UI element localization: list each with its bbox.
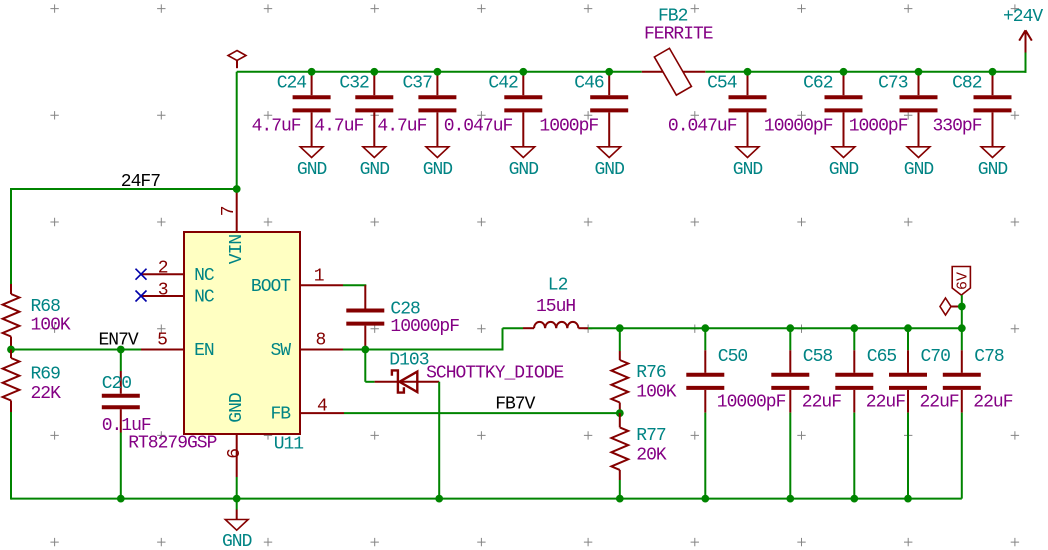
svg-text:22K: 22K	[31, 384, 62, 404]
junction node FB divider	[616, 409, 624, 417]
svg-text:C82: C82	[952, 74, 982, 94]
svg-text:C50: C50	[718, 347, 748, 367]
svg-text:22uF: 22uF	[802, 393, 841, 413]
pin 1 BOOT	[251, 266, 343, 297]
junction node C50 bottom	[701, 495, 709, 503]
svg-text:1000pF: 1000pF	[849, 117, 908, 137]
junction node C58 top	[786, 324, 794, 332]
svg-text:SW: SW	[271, 341, 292, 361]
pin 8 SW	[271, 331, 344, 362]
svg-text:R69: R69	[31, 365, 61, 385]
junction node C78 top	[958, 324, 966, 332]
svg-text:R77: R77	[636, 426, 666, 446]
pin 3 NC	[141, 280, 215, 307]
wire BOOT to C28	[343, 284, 366, 286]
svg-text:0.047uF: 0.047uF	[444, 117, 513, 137]
ground symbol GND under C42	[509, 147, 539, 180]
svg-text:R76: R76	[636, 363, 666, 383]
junction node 24F7/VIN	[233, 185, 241, 193]
svg-text:GND: GND	[360, 160, 390, 180]
svg-text:7: 7	[219, 206, 239, 216]
junction node at C37 top	[434, 68, 442, 76]
junction node at C24 top	[308, 68, 316, 76]
schottky diode D103	[375, 351, 564, 393]
svg-text:6V: 6V	[955, 272, 972, 290]
junction node on ground rail	[117, 495, 125, 503]
ground symbol GND main	[222, 499, 252, 550]
svg-text:EN: EN	[194, 341, 214, 361]
ground symbol GND under C24	[297, 147, 327, 180]
ground symbol GND under C82	[978, 147, 1008, 180]
svg-text:GND: GND	[978, 160, 1008, 180]
junction node at C46 top	[605, 68, 613, 76]
svg-text:C54: C54	[707, 74, 737, 94]
wire top +24V rail left segment	[237, 71, 642, 73]
svg-text:6: 6	[225, 449, 245, 459]
junction node at C73 top	[915, 68, 923, 76]
ground symbol GND under C32	[360, 147, 390, 180]
junction node at C54 top	[744, 68, 752, 76]
net label EN7V	[99, 331, 139, 351]
ferrite bead FB2 FERRITE	[642, 7, 713, 96]
global label 6V	[952, 267, 971, 296]
svg-text:R68: R68	[31, 297, 61, 317]
ground symbol GND under C37	[423, 147, 453, 180]
junction node C58 bottom	[786, 495, 794, 503]
svg-text:RT8279GSP: RT8279GSP	[128, 434, 216, 454]
resistor R69 22K	[3, 350, 62, 500]
wire top rail right of ferrite	[705, 53, 1026, 73]
svg-text:GND: GND	[509, 160, 539, 180]
capacitor C54 0.047uF	[668, 72, 767, 147]
junction node at C82 top	[989, 68, 997, 76]
svg-text:15uH: 15uH	[536, 297, 575, 317]
power symbol +24V	[1003, 7, 1043, 53]
wire 6V label to rail	[961, 295, 963, 328]
op-amp regulator U11 RT8279GSP body	[128, 232, 303, 455]
svg-text:BOOT: BOOT	[251, 277, 291, 297]
svg-text:1: 1	[314, 266, 324, 286]
junction node at C42 top	[519, 68, 527, 76]
svg-text:+24V: +24V	[1003, 7, 1043, 27]
svg-text:GND: GND	[829, 160, 859, 180]
svg-text:5: 5	[157, 331, 167, 351]
junction node C20 top	[117, 346, 125, 354]
junction node C65 bottom	[850, 495, 858, 503]
svg-text:100K: 100K	[31, 316, 71, 336]
capacitor C20 0.1uF	[102, 350, 151, 499]
svg-text:22uF: 22uF	[920, 393, 959, 413]
svg-text:4: 4	[317, 397, 327, 417]
svg-text:U11: U11	[274, 435, 304, 455]
capacitor C73 1000pF	[849, 72, 938, 147]
svg-text:GND: GND	[423, 160, 453, 180]
svg-text:4.7uF: 4.7uF	[314, 117, 363, 137]
svg-text:C46: C46	[574, 74, 604, 94]
capacitor C32 4.7uF	[314, 72, 393, 147]
svg-text:3: 3	[158, 280, 168, 300]
capacitor C70 22uF	[889, 328, 959, 498]
junction node 6V flag	[958, 303, 966, 311]
capacitor C65 22uF	[835, 328, 905, 498]
svg-text:20K: 20K	[636, 446, 667, 466]
svg-text:10000pF: 10000pF	[390, 317, 459, 337]
resistor R68 100K	[3, 284, 71, 350]
pin 6 wire to ground rail	[236, 477, 238, 499]
svg-text:GND: GND	[594, 160, 624, 180]
wire vertical from top rail to VIN node	[236, 72, 238, 189]
svg-text:VIN: VIN	[227, 235, 247, 265]
capacitor C62 10000pF	[764, 72, 863, 147]
svg-text:NC: NC	[194, 288, 215, 308]
pin 5 EN	[141, 331, 214, 362]
capacitor C24 4.7uF	[252, 72, 331, 147]
resistor R77 20K	[611, 413, 667, 499]
junction node R76 top	[616, 324, 624, 332]
junction node on ground rail	[616, 495, 624, 503]
svg-text:NC: NC	[194, 266, 215, 286]
svg-text:FERRITE: FERRITE	[644, 24, 713, 44]
svg-text:GND: GND	[227, 393, 247, 423]
svg-text:C70: C70	[921, 347, 951, 367]
svg-text:C78: C78	[974, 347, 1004, 367]
svg-text:1000pF: 1000pF	[539, 117, 598, 137]
svg-text:D103: D103	[389, 351, 428, 371]
svg-text:C42: C42	[488, 74, 518, 94]
capacitor C82 330pF	[933, 72, 1012, 147]
svg-text:L2: L2	[548, 276, 568, 296]
capacitor C28 10000pF	[346, 285, 459, 349]
junction node C50 top	[701, 324, 709, 332]
capacitor C42 0.047uF	[444, 72, 543, 147]
wire EN7V	[11, 349, 141, 351]
capacitor C78 22uF	[943, 328, 1013, 498]
net label 24F7	[121, 172, 160, 192]
wire SW down to D103	[365, 350, 374, 382]
pin 6 GND	[225, 393, 247, 477]
svg-text:C32: C32	[339, 74, 369, 94]
junction node EN7V left	[7, 346, 15, 354]
junction node C70 top	[904, 324, 912, 332]
svg-text:GND: GND	[904, 160, 934, 180]
pin 4 FB	[271, 397, 345, 425]
svg-text:10000pF: 10000pF	[764, 117, 833, 137]
svg-text:0.047uF: 0.047uF	[668, 117, 737, 137]
wire left rail upper	[10, 188, 12, 284]
svg-text:C65: C65	[867, 347, 897, 367]
svg-text:22uF: 22uF	[973, 393, 1012, 413]
svg-text:8: 8	[315, 331, 325, 351]
svg-text:GND: GND	[222, 532, 252, 550]
junction node on ground rail	[233, 495, 241, 503]
svg-text:C73: C73	[878, 74, 908, 94]
ground symbol GND under C73	[904, 147, 934, 180]
capacitor C37 4.7uF	[377, 72, 456, 147]
ground symbol GND under C54	[733, 147, 763, 180]
wire 24F7 horizontal	[11, 188, 237, 190]
no-connect cross on pin 2	[136, 269, 147, 280]
no-connect diamond flag at 6V	[940, 298, 958, 315]
junction node at C62 top	[840, 68, 848, 76]
net label FB7V	[495, 395, 535, 415]
capacitor C50 10000pF	[686, 328, 785, 498]
wire FB7V	[344, 412, 620, 414]
svg-text:C37: C37	[403, 74, 433, 94]
svg-text:C20: C20	[102, 374, 132, 394]
svg-text:4.7uF: 4.7uF	[252, 117, 301, 137]
svg-text:10000pF: 10000pF	[717, 393, 786, 413]
svg-text:C62: C62	[803, 74, 833, 94]
pin 2 NC	[141, 259, 215, 286]
svg-text:FB: FB	[271, 405, 292, 425]
no-connect cross on pin 3	[136, 291, 147, 302]
svg-text:C24: C24	[277, 74, 307, 94]
svg-text:0.1uF: 0.1uF	[102, 416, 151, 436]
svg-text:C58: C58	[803, 347, 833, 367]
capacitor C58 22uF	[771, 328, 841, 498]
wire SW node to L2	[343, 328, 523, 349]
wire D103 cathode to ground rail	[438, 382, 440, 499]
wire 6V output rail	[588, 327, 962, 329]
junction node C65 top	[850, 324, 858, 332]
capacitor C46 1000pF	[539, 72, 628, 147]
svg-text:100K: 100K	[636, 383, 676, 403]
inductor L2 15uH	[523, 276, 588, 329]
wire ground rail	[11, 498, 962, 500]
svg-text:GND: GND	[297, 160, 327, 180]
svg-text:2: 2	[158, 259, 168, 279]
no-connect diamond flag at top rail	[228, 51, 246, 69]
svg-text:SCHOTTKY_DIODE: SCHOTTKY_DIODE	[426, 364, 563, 384]
ground symbol GND under C62	[829, 147, 859, 180]
svg-text:4.7uF: 4.7uF	[377, 117, 426, 137]
junction node SW	[361, 346, 369, 354]
junction node at C32 top	[370, 68, 378, 76]
resistor R76 100K	[611, 328, 676, 413]
pin 7 VIN	[219, 189, 247, 264]
svg-text:GND: GND	[733, 160, 763, 180]
ground symbol GND under C46	[594, 147, 624, 180]
svg-text:330pF: 330pF	[933, 117, 982, 137]
svg-text:FB7V: FB7V	[495, 395, 535, 415]
junction node C70 bottom	[904, 495, 912, 503]
junction node on ground rail	[435, 495, 443, 503]
svg-text:22uF: 22uF	[866, 393, 905, 413]
